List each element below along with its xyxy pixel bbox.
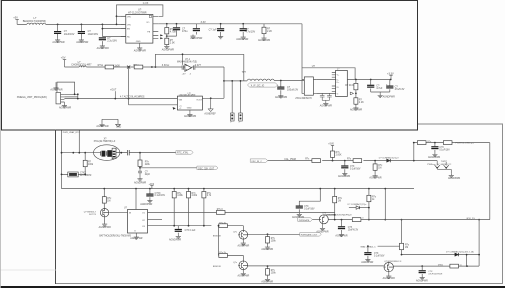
ground under C14	[134, 177, 146, 184]
svg-text:BEAD/FILT(100MHZ): BEAD/FILT(100MHZ)	[23, 20, 46, 23]
resistor R4 series	[98, 64, 114, 69]
node dots on 3.3V rail	[166, 23, 244, 25]
wire vbat sense bus	[361, 219, 490, 221]
wire 3V3 rail long	[62, 188, 415, 190]
wire U9 to J4	[316, 80, 335, 94]
ground under R2	[162, 45, 174, 52]
svg-text:AGNDPWR: AGNDPWR	[184, 115, 196, 118]
svg-text:0.1uF/16V: 0.1uF/16V	[439, 149, 450, 151]
node dot meas	[367, 245, 369, 247]
svg-text:AGNDPWR: AGNDPWR	[316, 230, 328, 233]
svg-text:AGNDPWR: AGNDPWR	[335, 235, 347, 238]
capacitor C13 series	[127, 150, 129, 155]
svg-text:AGNDPWR: AGNDPWR	[140, 203, 152, 206]
svg-text:+5V: +5V	[61, 56, 66, 60]
annotation ellipse around crystal	[94, 145, 120, 161]
svg-text:4.00k: 4.00k	[192, 195, 198, 197]
capacitor C7	[240, 24, 256, 36]
svg-text:32.768KHZ: 32.768KHZ	[80, 175, 92, 177]
node dots Q4	[334, 214, 336, 221]
svg-text:HT-CL2/SOT89R: HT-CL2/SOT89R	[128, 12, 147, 15]
capacitor C9 shield	[320, 93, 325, 100]
svg-text:AGNDPWR: AGNDPWR	[369, 176, 381, 179]
ldo U9	[295, 77, 316, 100]
ground under C18	[428, 153, 440, 159]
svg-text:RTC_XTAL: RTC_XTAL	[177, 152, 189, 155]
capacitor C14	[138, 168, 151, 177]
ground shield caps	[320, 100, 332, 107]
svg-text:4.7uF: 4.7uF	[376, 87, 383, 90]
svg-text:PWRGATE_OUT: PWRGATE_OUT	[301, 234, 318, 237]
svg-text:PWR_VBAT_RTC: PWR_VBAT_RTC	[63, 131, 81, 134]
svg-text:3.3V: 3.3V	[201, 20, 207, 24]
svg-text:C?X 0.1uF: C?X 0.1uF	[185, 230, 196, 232]
node dot on feedback	[182, 53, 184, 55]
ground under Q2	[238, 239, 250, 247]
diode D4	[446, 250, 474, 256]
ground under Q5	[383, 273, 395, 280]
capacitor C22 gate out bulk	[338, 219, 359, 233]
svg-text:NC: NC	[127, 37, 131, 39]
resistor R29 level shift 2	[219, 252, 228, 257]
resistor R22	[367, 189, 377, 220]
faint rear sheet edge bottom-left	[0, 269, 56, 271]
transistor Q4 power gate	[319, 213, 352, 224]
resistor R6	[345, 80, 358, 94]
net tag X_IF_I2C	[248, 83, 278, 88]
node dots on +5V rail	[57, 24, 104, 26]
resistor R20	[443, 141, 452, 145]
node dot branch2	[218, 225, 220, 227]
node dots battery bus	[267, 265, 468, 267]
ground under R3	[258, 36, 270, 42]
choke L2	[71, 60, 92, 67]
ground under C7	[236, 36, 248, 42]
wire crystal rail	[62, 152, 176, 154]
svg-text:0.1uF/16V: 0.1uF/16V	[350, 169, 361, 171]
node dot	[114, 98, 116, 100]
svg-text:1M: 1M	[338, 200, 341, 202]
wire vbus drop right	[413, 143, 415, 161]
ground under C17	[338, 172, 350, 178]
capacitor C21 meas filter	[364, 246, 385, 258]
capacitor C5	[193, 24, 200, 35]
wire diode row lower	[402, 220, 480, 266]
resistor R12 pullup	[202, 189, 212, 226]
U7 right pin stubs	[153, 16, 158, 38]
capacitor C11	[367, 80, 383, 93]
transistor Q1	[84, 209, 109, 217]
svg-text:+OUT: +OUT	[110, 89, 117, 91]
capacitor C3	[99, 37, 118, 45]
svg-text:10uF/6.3V: 10uF/6.3V	[348, 229, 359, 231]
diode D3	[348, 203, 369, 209]
resistor R8 100k	[83, 153, 94, 175]
svg-text:47uF/10V/X5R: 47uF/10V/X5R	[428, 273, 442, 275]
ground under R25	[261, 278, 273, 284]
svg-text:100k: 100k	[88, 164, 94, 166]
svg-text:22pF: 22pF	[145, 174, 151, 176]
node dots crystal rail	[61, 152, 141, 154]
node dot	[280, 80, 282, 82]
svg-text:470u: 470u	[182, 30, 188, 33]
resistor R7	[354, 93, 364, 106]
svg-text:4.75K: 4.75K	[170, 30, 177, 33]
svg-text:AGNDPWR: AGNDPWR	[134, 49, 146, 52]
svg-text:AGNDREF: AGNDREF	[204, 112, 216, 115]
ferrite bead L1	[23, 16, 46, 24]
svg-text:AGNDPWR: AGNDPWR	[275, 96, 287, 99]
svg-text:100u/6.3V: 100u/6.3V	[287, 89, 298, 92]
svg-text:AGNDPWR: AGNDPWR	[320, 105, 332, 108]
usb connector J4	[332, 69, 348, 97]
svg-text:AGNDPWR: AGNDPWR	[338, 175, 350, 178]
svg-text:BSS138: BSS138	[213, 236, 222, 238]
svg-text:R?x 0: R?x 0	[217, 209, 224, 211]
capacitor C18	[431, 143, 450, 153]
svg-text:AGNDPWR: AGNDPWR	[350, 108, 362, 111]
op-amp U1	[177, 59, 197, 75]
power flag +5V (analog)	[61, 56, 66, 67]
svg-text:+5V: +5V	[13, 16, 18, 20]
svg-text:D? COMPACT(21)x: D? COMPACT(21)x	[348, 203, 368, 206]
shunt reference U8	[177, 93, 202, 110]
svg-text:BATTHOLDER(XXL)-TM30-WS: BATTHOLDER(XXL)-TM30-WS	[99, 235, 131, 238]
wire Q1 to U10	[109, 212, 127, 214]
resistor R24 divider	[400, 220, 410, 255]
resistor R25 pulldown	[266, 266, 277, 277]
node dot crossing	[128, 98, 130, 100]
svg-text:AGNDPWR: AGNDPWR	[236, 38, 248, 41]
connector J3 programming	[56, 92, 64, 104]
node dots 3V3 rail	[103, 188, 386, 190]
node dot	[151, 66, 153, 68]
wire EN jog	[102, 24, 125, 36]
wire gate tag to Q4	[312, 219, 319, 221]
svg-text:AGNDPWR: AGNDPWR	[448, 177, 460, 180]
wire sense drop	[129, 67, 178, 105]
ground AGNDPWR under U7	[134, 43, 146, 52]
svg-text:3.3Vxx: 3.3Vxx	[162, 64, 170, 67]
resistor R17 series	[347, 158, 362, 162]
resistor R23 series out	[352, 218, 364, 222]
ground under Q1	[99, 217, 111, 229]
crystal case	[112, 148, 116, 159]
node dots	[401, 254, 480, 256]
wire op-amp output	[192, 66, 224, 68]
svg-text:GND: GND	[136, 41, 141, 43]
capacitor C2 bulk	[78, 24, 99, 38]
svg-text:AGNDPWR: AGNDPWR	[258, 39, 270, 42]
svg-text:VIN: VIN	[179, 99, 183, 101]
net tag OSC_32K_OUT	[197, 166, 218, 170]
wire USB top loop	[302, 68, 355, 80]
svg-text:C-XX: C-XX	[143, 3, 149, 5]
svg-text:100k: 100k	[271, 273, 277, 275]
wire U10 out1	[148, 211, 335, 213]
resistor R9 load	[138, 153, 151, 168]
resistor R1 divider	[165, 24, 177, 34]
transistor Q2	[213, 230, 248, 239]
capacitor C16 bus decouple	[175, 226, 196, 235]
ground under Q4	[316, 222, 328, 233]
crystal X1	[101, 150, 112, 157]
wire +5V input rail	[17, 23, 124, 25]
ground under U10	[130, 233, 142, 240]
wire analog rail	[65, 66, 185, 68]
resistor R3 pulldown	[262, 24, 272, 37]
svg-text:4.7u/10V: 4.7u/10V	[245, 31, 255, 34]
svg-text:2.00K: 2.00K	[336, 155, 342, 157]
ground under Q3	[448, 174, 460, 180]
svg-text:VIN: VIN	[127, 24, 131, 26]
label X? crystal	[94, 139, 116, 144]
svg-text:4.7 ACTCOIL/ACMRES: 4.7 ACTCOIL/ACMRES	[120, 96, 145, 99]
node dot	[355, 93, 357, 95]
node dots on loop	[116, 15, 118, 25]
svg-text:AGNDPWR: AGNDPWR	[416, 279, 428, 282]
svg-text:VOUT: VOUT	[196, 99, 203, 101]
capacitor C8 bulk	[277, 81, 298, 95]
svg-text:GND: GND	[116, 126, 121, 128]
svg-text:SOT23: SOT23	[89, 214, 97, 216]
ground under C8	[275, 94, 287, 99]
ground tie AGNDPWR-GND	[96, 119, 121, 128]
capacitor C15 decouple	[146, 189, 165, 199]
svg-text:OSC_32K_OUT: OSC_32K_OUT	[198, 168, 215, 170]
svg-text:1M: 1M	[405, 247, 408, 249]
ground under C15	[140, 199, 152, 206]
svg-text:Q? BSS138W-7-F: Q? BSS138W-7-F	[384, 261, 402, 263]
sheet 1 (front schematic sheet)	[1, 0, 417, 130]
net tag OSC_IN	[250, 159, 268, 163]
capacitor C4 feedback	[167, 24, 188, 36]
svg-text:2.2K: 2.2K	[359, 101, 364, 104]
ground AGNDPWR under C3	[97, 44, 109, 50]
node dot	[223, 80, 225, 82]
net tag PWRGATE_OUT	[300, 233, 322, 237]
svg-text:C? 1uF: C? 1uF	[209, 29, 218, 32]
resistor R18 pulldown	[373, 161, 383, 175]
resistor R16	[331, 151, 342, 161]
svg-text:0.1uF/16V: 0.1uF/16V	[304, 209, 315, 211]
svg-text:1M: 1M	[107, 200, 110, 202]
svg-text:10uF/16V: 10uF/16V	[64, 33, 75, 36]
svg-text:CAL_PWM: CAL_PWM	[284, 158, 296, 161]
node dot output 1	[267, 233, 269, 235]
svg-text:AGNDPWR: AGNDPWR	[361, 261, 373, 264]
ground under C16	[169, 235, 181, 242]
diode D1 small	[350, 92, 353, 95]
svg-text:GPIO_PG: GPIO_PG	[466, 218, 475, 220]
resistor R15 series	[305, 158, 320, 162]
svg-text:AGNDPWR: AGNDPWR	[130, 237, 142, 240]
svg-text:+3.3V: +3.3V	[387, 71, 394, 75]
dual transistor Q3	[427, 161, 451, 174]
node dots on branch	[231, 80, 241, 82]
svg-text:2.2u/16V: 2.2u/16V	[107, 39, 117, 42]
svg-text:0.1uF/16V: 0.1uF/16V	[374, 256, 385, 258]
label +OUT	[110, 89, 117, 98]
resistor R27 pulldown	[266, 234, 277, 245]
ground usb caps	[378, 92, 395, 98]
ground under R27	[261, 245, 273, 251]
arrow adjust	[173, 107, 176, 110]
power flag +5V0	[328, 144, 334, 151]
wire usb prot row	[414, 143, 490, 220]
wire 3.3V output rail	[158, 23, 302, 25]
resistor R21	[333, 189, 343, 203]
resistor R11 pullup	[187, 189, 198, 226]
ground tap on loop	[50, 82, 62, 91]
wire branch 2 drop	[218, 226, 220, 256]
ground under C6	[218, 35, 223, 39]
capacitor C6	[209, 24, 225, 35]
resistor R26 series out	[438, 264, 463, 268]
window bottom edge strip	[0, 286, 505, 288]
transistor Q5	[384, 261, 402, 273]
svg-text:OSC_IN_C: OSC_IN_C	[251, 161, 262, 163]
svg-text:2.0K: 2.0K	[170, 41, 175, 44]
capacitor C20 bulk battery	[419, 266, 443, 276]
svg-text:AGNDPWR: AGNDPWR	[96, 125, 108, 128]
wire branch to headers	[224, 54, 244, 113]
ground under Q6	[238, 270, 250, 278]
wire caps gnd join	[371, 91, 390, 93]
node dots	[74, 93, 79, 99]
wire J3 top loop	[57, 82, 75, 94]
svg-text:AGNDPWR: AGNDPWR	[383, 95, 395, 98]
svg-text:ZXCL330/SC70: ZXCL330/SC70	[295, 98, 312, 100]
wire cal row	[268, 160, 437, 162]
wire Q2 output	[248, 233, 300, 235]
wire pin1 to loop	[117, 15, 126, 17]
resistor R14 series	[216, 209, 225, 214]
svg-text:220k: 220k	[145, 164, 151, 166]
wire U7 top feedback loop	[117, 5, 163, 25]
power flag +3.3V usb	[387, 71, 394, 79]
resistor R13 gate	[102, 189, 112, 209]
wire battery bus bottom	[248, 265, 479, 267]
svg-text:0R50: 0R50	[438, 265, 444, 267]
vertical from rail to cap jog	[299, 189, 320, 206]
svg-text:+5V: +5V	[182, 73, 186, 75]
sheet 2 (rear schematic sheet)	[56, 124, 503, 283]
svg-text:J?: J?	[230, 122, 232, 124]
resistor R28 level shift 1	[219, 222, 228, 227]
wire rail drop	[384, 189, 386, 220]
wire to OSC tag	[140, 167, 197, 169]
wire U10 out2	[148, 219, 163, 221]
capacitor C12 bulk	[386, 80, 405, 93]
svg-text:R?x 2k: R?x 2k	[219, 252, 227, 254]
svg-text:R?xx: R?xx	[98, 64, 104, 67]
svg-text:TWR?: TWR?	[441, 161, 448, 163]
sheet2 left border emphasis	[55, 130, 57, 285]
wire U8 output	[202, 97, 224, 99]
node dots prot row	[413, 142, 436, 144]
wire U10 top feed	[135, 189, 137, 210]
wire feedback top	[155, 54, 243, 67]
svg-text:AGNDPWR: AGNDPWR	[134, 182, 146, 185]
svg-text:4.00k: 4.00k	[177, 195, 183, 197]
svg-text:AGNDPWR: AGNDPWR	[162, 49, 174, 52]
wire 3.3V feed to USB block	[301, 24, 303, 94]
wire pin rows	[64, 94, 177, 98]
svg-text:AGNDPWR: AGNDPWR	[261, 248, 273, 251]
svg-text:XMEGA_VIRT_PROG(32K): XMEGA_VIRT_PROG(32K)	[17, 96, 47, 99]
svg-text:AGNDPWR: AGNDPWR	[52, 41, 64, 44]
wire batt meas tag	[360, 245, 399, 248]
ground under J3	[59, 102, 71, 110]
wire U10 out3 bus	[148, 225, 212, 227]
svg-text:AGNDPWR: AGNDPWR	[238, 244, 250, 247]
node junction with test X	[127, 66, 130, 69]
node dot feedback	[155, 66, 157, 68]
ground under R7	[350, 106, 362, 111]
node dots lower bus	[173, 225, 205, 227]
svg-text:AGNDPWR: AGNDPWR	[169, 239, 181, 242]
ground under C20	[416, 276, 428, 282]
ground AGNDPWR under C2	[76, 38, 88, 44]
resistor R2 divider	[165, 34, 175, 45]
svg-text:TP?: TP?	[242, 72, 247, 74]
svg-text:AGNDPWR: AGNDPWR	[238, 275, 250, 278]
svg-text:PWRGATE: PWRGATE	[299, 219, 310, 222]
svg-text:BSS138: BSS138	[213, 266, 222, 268]
header J1	[230, 113, 234, 124]
power flag +5V (input)	[13, 16, 19, 25]
svg-text:AGNDPWR: AGNDPWR	[97, 47, 109, 50]
node dots VBUS	[355, 79, 392, 81]
wire Q4 drain riser	[324, 203, 352, 220]
svg-text:AGNDPWR: AGNDPWR	[428, 156, 440, 159]
svg-text:2.2K: 2.2K	[267, 30, 272, 33]
ground under C22	[335, 233, 347, 238]
svg-text:PWR5V0_USB_pro: PWR5V0_USB_pro	[455, 142, 474, 144]
svg-text:AGNDPWR: AGNDPWR	[190, 37, 202, 40]
ground AGNDPWR shared	[190, 35, 202, 41]
wire output drop to U8	[223, 67, 225, 98]
window left edge	[0, 0, 1, 288]
resistor R19	[417, 141, 432, 145]
svg-text:47u/6.3V: 47u/6.3V	[395, 88, 405, 91]
resistor R10 pullup	[172, 189, 183, 226]
svg-text:EN: EN	[127, 29, 130, 31]
capacitor C19	[296, 206, 315, 213]
node dots cal row	[332, 160, 415, 162]
wire bead to USB block	[244, 80, 305, 82]
ground under U8	[184, 110, 196, 118]
net tag RTC_XTAL	[176, 151, 193, 155]
svg-text:1k00: 1k00	[114, 64, 120, 67]
svg-text:10uF/16V: 10uF/16V	[88, 33, 99, 36]
svg-text:VO: VO	[146, 22, 149, 24]
node dot	[210, 97, 212, 99]
svg-text:AGNDPWR: AGNDPWR	[50, 88, 62, 91]
regulator U7	[126, 8, 153, 43]
svg-text:J?: J?	[239, 122, 241, 124]
svg-text:X_IF_I2C_IO: X_IF_I2C_IO	[251, 86, 265, 88]
capacitor C10 shield	[327, 93, 332, 100]
transistor Q6	[213, 261, 248, 270]
wire bend into Q2	[227, 226, 243, 231]
node dot osc out	[139, 167, 141, 169]
svg-text:AGNDPWR: AGNDPWR	[99, 226, 111, 229]
ferrite bead FB2	[247, 79, 274, 81]
svg-text:D? COMPACT(21)-V: D? COMPACT(21)-V	[379, 156, 399, 159]
svg-text:3.3V?: 3.3V?	[195, 65, 202, 67]
